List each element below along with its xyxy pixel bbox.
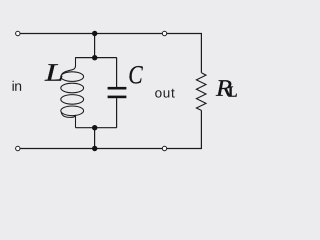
wire bottom right (out terminal to right corner) — [167, 110, 202, 148]
terminal input top — [16, 31, 20, 35]
wire bottom middle (junction to out terminal) — [95, 148, 163, 150]
cap bottom lead — [116, 98, 118, 128]
svg-text:L: L — [228, 84, 237, 101]
wire top right (out terminal to right corner) — [167, 34, 202, 73]
cap bottom plate — [108, 96, 127, 99]
junction dot bottom wire — [92, 146, 97, 151]
wire tank top rail — [76, 57, 117, 59]
wire tank bottom rail — [76, 127, 117, 129]
terminal output bottom — [162, 146, 166, 150]
resistor RL zigzag — [196, 73, 206, 111]
coil loop 3 — [61, 95, 84, 105]
terminal output top — [162, 31, 166, 35]
top lead stub with curl — [62, 57, 76, 75]
junction dot tank top — [92, 55, 97, 60]
cap top plate — [108, 87, 127, 90]
coil loop 1 — [61, 72, 84, 82]
junction dot tank bottom — [92, 125, 97, 130]
svg-text:in: in — [12, 78, 22, 94]
coil loop 4 — [61, 106, 84, 116]
terminal input bottom — [16, 146, 20, 150]
junction dot top wire — [92, 31, 97, 36]
wire vertical link top (top wire to tank top) — [94, 34, 96, 58]
inductor L (coil, 4 loops) — [61, 57, 84, 128]
capacitor C — [108, 58, 127, 128]
wire top-left horizontal (input top to junction) — [20, 33, 95, 35]
svg-text:L: L — [44, 60, 64, 87]
bottom lead stub with curl — [61, 112, 75, 127]
wire top middle (junction to out terminal) — [95, 33, 162, 35]
wire vertical link bottom (tank bottom to bottom wire) — [94, 128, 96, 149]
svg-text:out: out — [155, 86, 176, 101]
coil loop 2 — [61, 83, 84, 93]
wire bottom-left horizontal (input bottom to junction) — [20, 148, 95, 150]
svg-text:C: C — [128, 60, 143, 89]
cap top lead — [116, 58, 118, 87]
